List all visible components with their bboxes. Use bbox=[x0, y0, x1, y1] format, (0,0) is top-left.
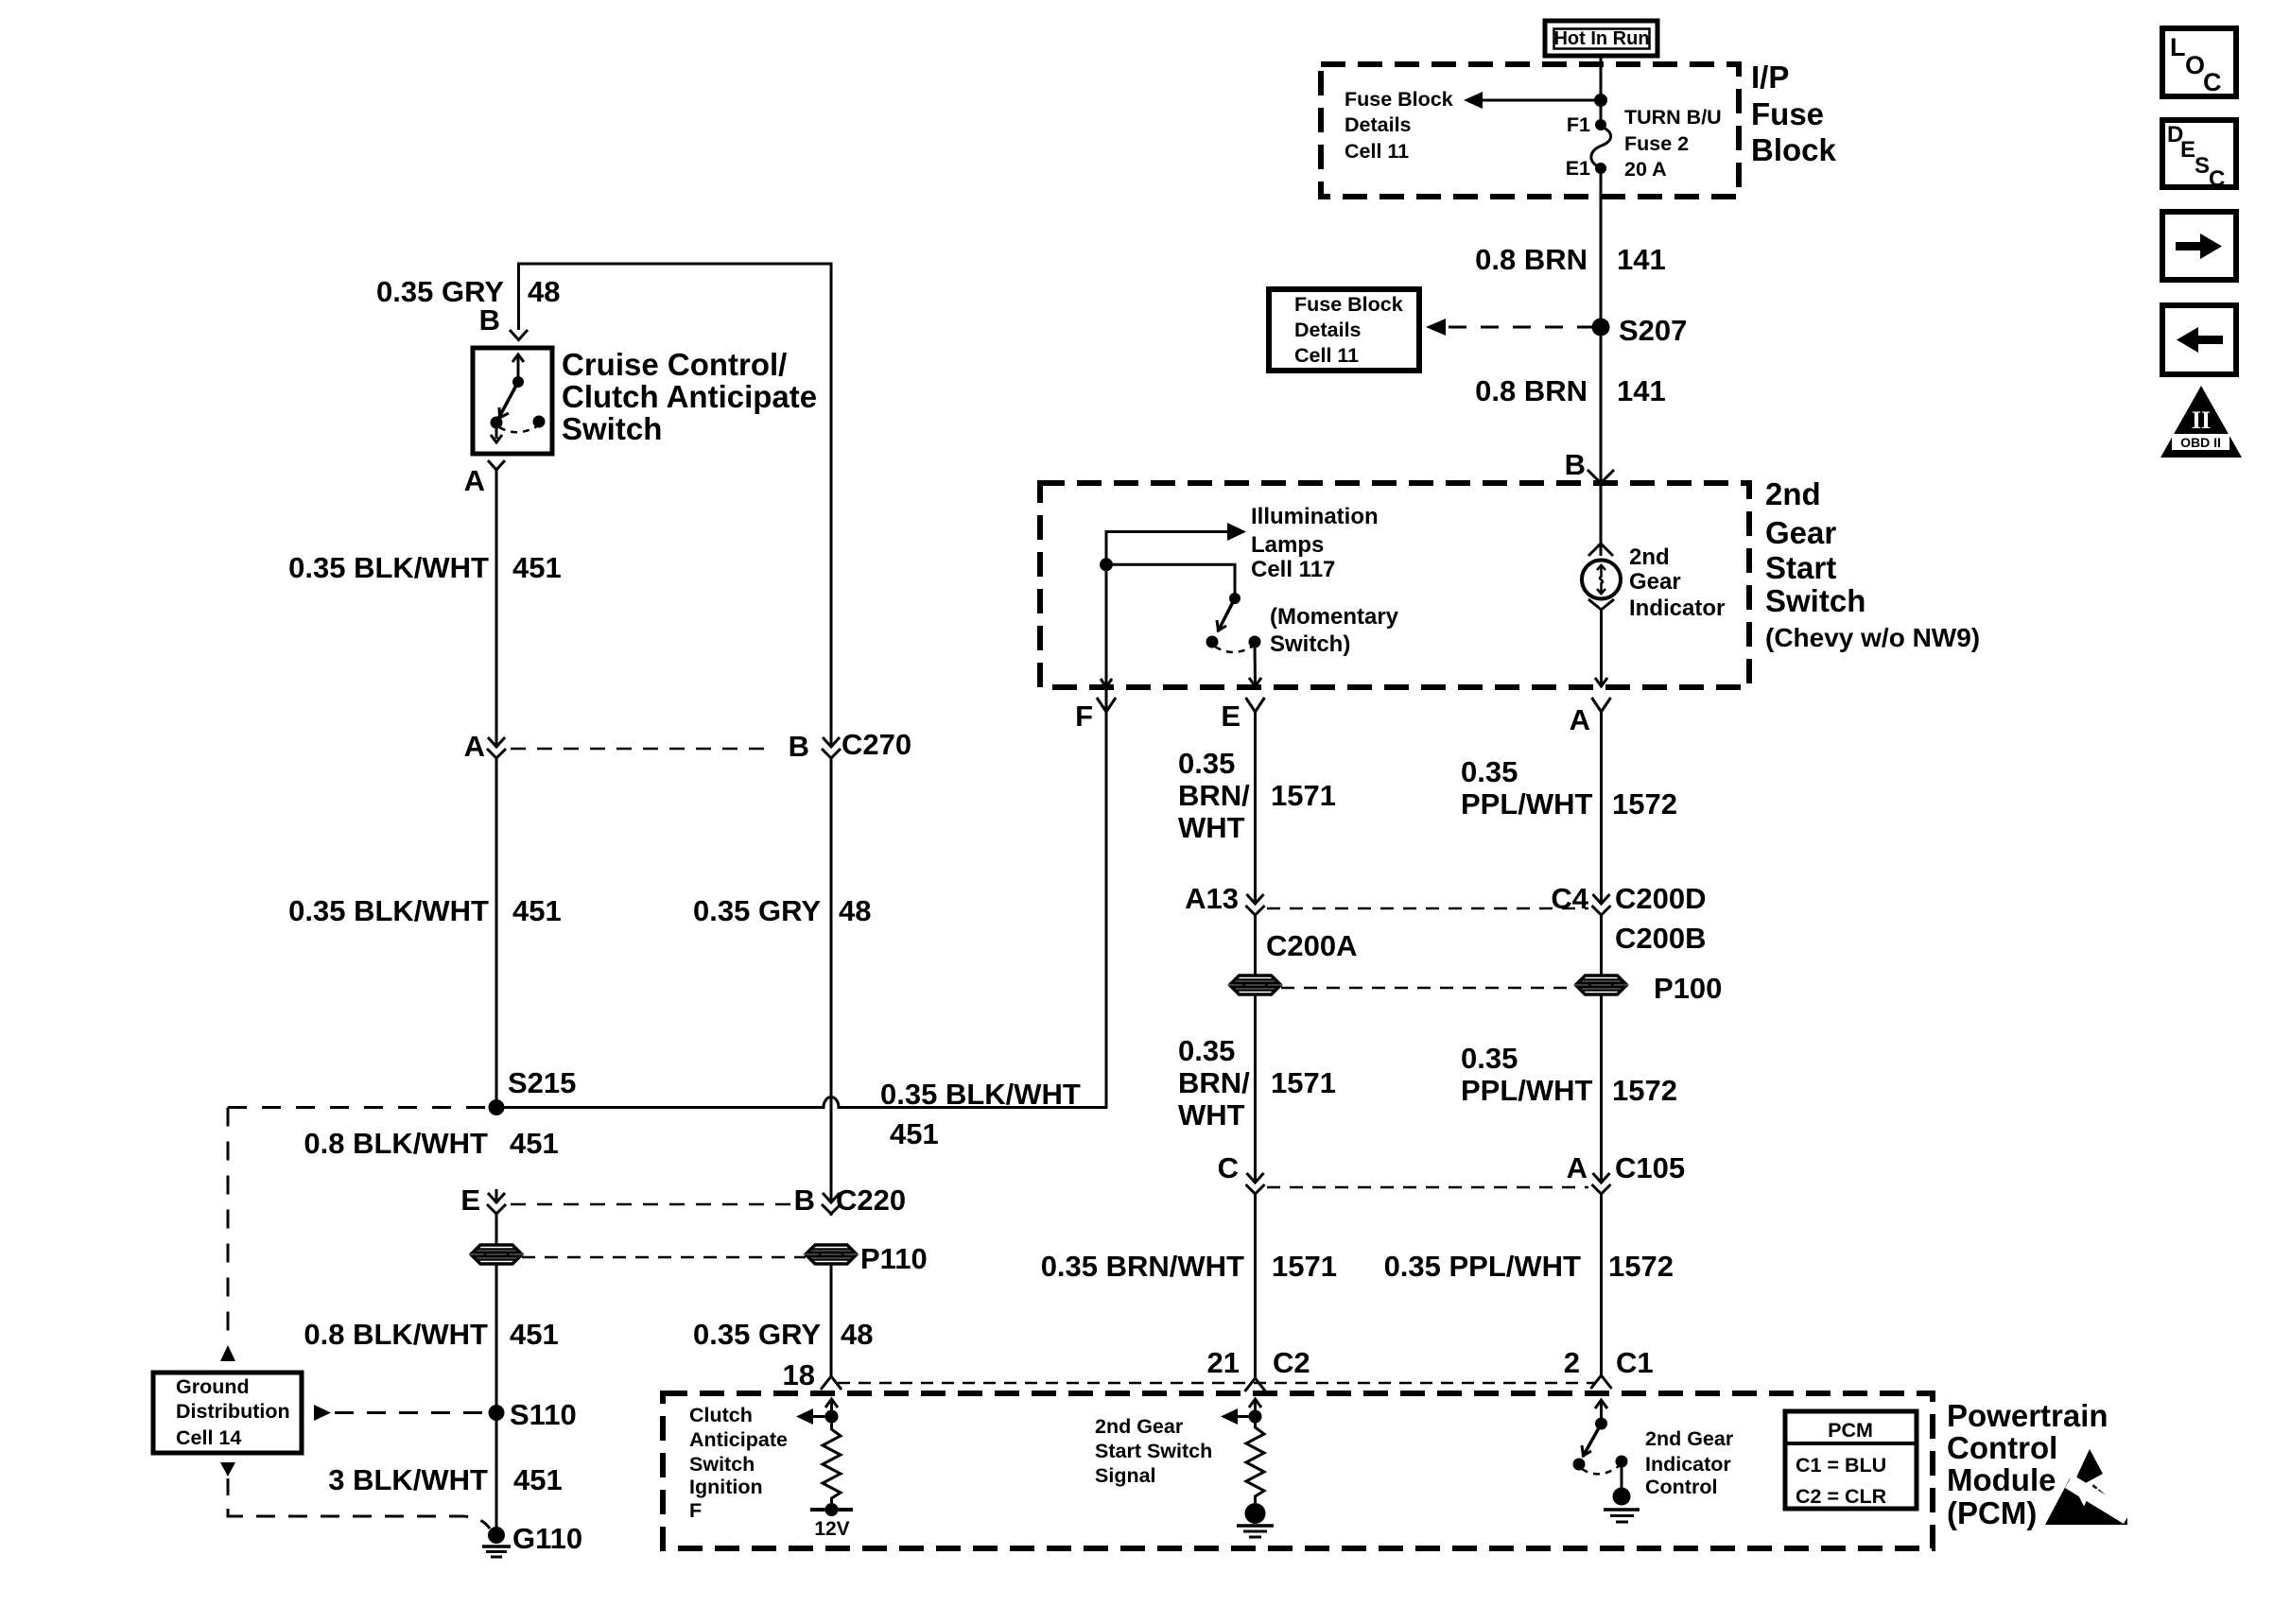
svg-text:I/P: I/P bbox=[1751, 60, 1789, 95]
svg-text:141: 141 bbox=[1617, 243, 1666, 276]
label Powertrain Control Module (PCM) bbox=[1947, 1398, 2108, 1530]
svg-text:0.35: 0.35 bbox=[1178, 747, 1235, 780]
svg-text:Start Switch: Start Switch bbox=[1095, 1440, 1212, 1462]
svg-text:F1: F1 bbox=[1567, 113, 1590, 136]
connector C220 pin B bbox=[794, 1183, 907, 1217]
svg-text:0.8 BRN: 0.8 BRN bbox=[1475, 374, 1588, 407]
label 2nd Gear Start Switch Signal bbox=[1095, 1415, 1212, 1487]
svg-text:S215: S215 bbox=[508, 1066, 576, 1099]
svg-text:(Chevy w/o NW9): (Chevy w/o NW9) bbox=[1765, 623, 1980, 652]
wire 0.35 BRN/WHT 1571 pin E to C200 bbox=[1178, 712, 1336, 904]
label 2nd Gear Start Switch (Chevy w/o NW9) bbox=[1765, 476, 1980, 652]
svg-text:Cell 14: Cell 14 bbox=[176, 1426, 241, 1449]
PCM connector thin dashed pin line bbox=[838, 1382, 1596, 1385]
svg-text:1571: 1571 bbox=[1271, 1066, 1336, 1099]
wire 0.8 BLK/WHT 451 S215 to C220 bbox=[304, 1127, 558, 1160]
svg-text:Distribution: Distribution bbox=[176, 1400, 290, 1423]
svg-text:OBD II: OBD II bbox=[2180, 435, 2221, 450]
cruise switch internal contacts bbox=[491, 354, 546, 442]
svg-text:Cell 11: Cell 11 bbox=[1294, 344, 1359, 367]
svg-text:Cell 117: Cell 117 bbox=[1251, 557, 1335, 582]
svg-text:B: B bbox=[794, 1183, 815, 1217]
svg-text:0.35: 0.35 bbox=[1461, 755, 1518, 788]
svg-text:0.35 BLK/WHT: 0.35 BLK/WHT bbox=[288, 894, 489, 927]
2nd gear start switch signal pull-down resistor to ground bbox=[1221, 1399, 1274, 1537]
svg-text:Ignition: Ignition bbox=[689, 1476, 763, 1498]
2nd gear indicator control switch inside PCM bbox=[1573, 1400, 1640, 1522]
wire S215 splice to F branch with hop over GRY wire bbox=[496, 712, 1106, 1150]
svg-text:E: E bbox=[2180, 137, 2195, 163]
wire C200 to P100 left bbox=[1254, 915, 1257, 975]
svg-text:A: A bbox=[464, 464, 485, 497]
dashed reference wire ground distribution to G110 bbox=[220, 1462, 490, 1529]
power feed label Hot In Run bbox=[1545, 21, 1657, 56]
svg-text:0.35 PPL/WHT: 0.35 PPL/WHT bbox=[1384, 1250, 1581, 1283]
svg-text:0.8 BLK/WHT: 0.8 BLK/WHT bbox=[304, 1318, 488, 1351]
wire 0.35 PPL/WHT 1572 pin A to C200 bbox=[1461, 712, 1677, 904]
label 2nd Gear Indicator Control bbox=[1645, 1427, 1734, 1498]
grommet P110 dashed mating line bbox=[522, 1256, 806, 1259]
icon OBD II triangle bbox=[2160, 386, 2242, 458]
svg-text:2nd Gear: 2nd Gear bbox=[1645, 1427, 1734, 1450]
svg-text:Switch: Switch bbox=[1765, 583, 1865, 618]
svg-text:451: 451 bbox=[510, 1127, 559, 1160]
svg-text:48: 48 bbox=[528, 275, 560, 308]
svg-text:1572: 1572 bbox=[1608, 1250, 1674, 1283]
svg-text:C: C bbox=[1218, 1151, 1239, 1184]
svg-text:B: B bbox=[479, 303, 500, 337]
pin 2 C1 of PCM bbox=[1564, 1346, 1654, 1389]
svg-text:451: 451 bbox=[890, 1117, 939, 1150]
svg-text:Details: Details bbox=[1294, 319, 1362, 341]
svg-text:A: A bbox=[1570, 703, 1590, 736]
svg-text:1571: 1571 bbox=[1271, 779, 1336, 812]
svg-text:P100: P100 bbox=[1654, 972, 1722, 1005]
fuse TURN B/U Fuse 2 20 A bbox=[1591, 106, 1722, 181]
dashed reference arrow to S110 bbox=[314, 1405, 484, 1421]
label Cruise Control/Clutch Anticipate Switch bbox=[562, 347, 817, 446]
svg-text:0.35 GRY: 0.35 GRY bbox=[693, 1318, 821, 1351]
svg-text:C1: C1 bbox=[1616, 1346, 1654, 1379]
connector C200A pin A13 bbox=[1185, 882, 1357, 962]
svg-text:C: C bbox=[2209, 166, 2225, 192]
svg-text:C105: C105 bbox=[1615, 1151, 1685, 1184]
fuse E1 terminal bbox=[1566, 157, 1606, 180]
svg-text:Fuse Block: Fuse Block bbox=[1345, 88, 1453, 111]
wire 0.35 BLK/WHT 451 switch A to C270 bbox=[288, 470, 562, 747]
wire junction to momentary switch bbox=[1106, 564, 1235, 598]
svg-text:C2 = CLR: C2 = CLR bbox=[1796, 1485, 1887, 1508]
svg-text:2nd Gear: 2nd Gear bbox=[1095, 1415, 1184, 1438]
svg-text:1571: 1571 bbox=[1272, 1250, 1337, 1283]
svg-text:Details: Details bbox=[1345, 113, 1412, 136]
svg-text:C200B: C200B bbox=[1615, 922, 1707, 955]
svg-text:E1: E1 bbox=[1566, 157, 1590, 180]
node fuse feed junction bbox=[1594, 94, 1607, 107]
connector C270 pin B bbox=[789, 728, 912, 763]
svg-text:C200D: C200D bbox=[1615, 882, 1707, 915]
svg-text:S110: S110 bbox=[510, 1398, 577, 1431]
svg-text:C4: C4 bbox=[1551, 882, 1588, 915]
PCM dashed box bbox=[663, 1393, 1933, 1548]
svg-text:12V: 12V bbox=[814, 1518, 849, 1540]
svg-text:PPL/WHT: PPL/WHT bbox=[1461, 787, 1593, 821]
svg-text:2: 2 bbox=[1564, 1346, 1580, 1379]
dashed ground reference from S215 to ground distribution bbox=[228, 1106, 488, 1109]
wire 0.35 GRY 48 P110 to PCM pin 18 bbox=[693, 1265, 873, 1376]
svg-text:Signal: Signal bbox=[1095, 1464, 1156, 1487]
pin E of 2nd gear switch bbox=[1221, 698, 1264, 733]
icon LOC box bbox=[2162, 28, 2236, 96]
svg-text:C: C bbox=[2203, 68, 2222, 96]
svg-text:II: II bbox=[2192, 406, 2211, 434]
svg-text:PPL/WHT: PPL/WHT bbox=[1461, 1074, 1593, 1107]
label Fuse Block Details Cell 11 (inside fuse box) bbox=[1345, 88, 1453, 163]
svg-text:S: S bbox=[2195, 153, 2210, 179]
svg-text:A13: A13 bbox=[1185, 882, 1239, 915]
svg-text:2nd: 2nd bbox=[1629, 544, 1670, 570]
svg-text:Cruise Control/: Cruise Control/ bbox=[562, 347, 787, 382]
grommet P100 right bbox=[1578, 972, 1723, 1005]
svg-text:Gear: Gear bbox=[1629, 569, 1681, 595]
wire 0.35 GRY 48 from C270 branch to cruise switch pin B bbox=[376, 264, 831, 747]
icon DESC box bbox=[2162, 120, 2236, 192]
dashed ground reference wire down to ground distribution box bbox=[220, 1108, 235, 1362]
connector C105 pin C bbox=[1218, 1151, 1265, 1196]
svg-text:Fuse 2: Fuse 2 bbox=[1624, 132, 1689, 155]
svg-text:Control: Control bbox=[1947, 1430, 2057, 1465]
svg-text:A: A bbox=[464, 730, 485, 763]
svg-text:BRN/: BRN/ bbox=[1178, 779, 1250, 812]
svg-text:451: 451 bbox=[512, 894, 562, 927]
svg-text:C1 = BLU: C1 = BLU bbox=[1796, 1454, 1886, 1477]
svg-text:B: B bbox=[789, 730, 809, 763]
svg-text:Control: Control bbox=[1645, 1476, 1717, 1498]
svg-text:48: 48 bbox=[841, 1318, 873, 1351]
label Clutch Anticipate Switch Ignition F bbox=[689, 1404, 788, 1522]
wire 0.35 PPL/WHT 1572 C105 to PCM pin 2 bbox=[1384, 1194, 1674, 1375]
svg-text:Ground: Ground bbox=[176, 1375, 250, 1398]
icon right-arrow box bbox=[2162, 212, 2236, 280]
svg-text:Switch: Switch bbox=[689, 1453, 755, 1476]
svg-text:Start: Start bbox=[1765, 550, 1836, 585]
svg-text:Fuse Block: Fuse Block bbox=[1294, 293, 1403, 316]
svg-text:48: 48 bbox=[839, 894, 871, 927]
svg-text:Indicator: Indicator bbox=[1645, 1453, 1731, 1476]
svg-text:WHT: WHT bbox=[1178, 1098, 1245, 1132]
svg-text:Lamps: Lamps bbox=[1251, 532, 1324, 558]
pin A of cruise switch bbox=[464, 460, 505, 497]
svg-text:C200A: C200A bbox=[1266, 929, 1358, 962]
svg-text:C270: C270 bbox=[842, 728, 911, 761]
clutch anticipate pull-up resistor to 12V bbox=[796, 1399, 853, 1540]
svg-text:(Momentary: (Momentary bbox=[1270, 604, 1399, 630]
svg-text:0.35 GRY: 0.35 GRY bbox=[693, 894, 821, 927]
svg-text:BRN/: BRN/ bbox=[1178, 1066, 1250, 1099]
svg-text:TURN B/U: TURN B/U bbox=[1624, 106, 1722, 129]
svg-text:B: B bbox=[1565, 448, 1586, 481]
svg-text:Cell 11: Cell 11 bbox=[1345, 140, 1409, 163]
svg-text:Gear: Gear bbox=[1765, 515, 1836, 550]
svg-text:18: 18 bbox=[783, 1358, 815, 1391]
wire 0.35 BLK/WHT 451 C270 to S215 bbox=[288, 760, 562, 1108]
svg-text:21: 21 bbox=[1207, 1346, 1240, 1379]
label 2nd Gear Indicator bbox=[1629, 544, 1725, 621]
svg-text:C220: C220 bbox=[836, 1183, 906, 1217]
svg-text:Block: Block bbox=[1751, 132, 1837, 167]
svg-text:1572: 1572 bbox=[1612, 787, 1677, 821]
wire 3 BLK/WHT 451 S110 to G110 bbox=[328, 1463, 563, 1496]
svg-text:Hot In Run: Hot In Run bbox=[1553, 28, 1649, 49]
svg-text:Switch: Switch bbox=[562, 411, 662, 446]
node S215 bbox=[489, 1066, 577, 1115]
svg-text:Anticipate: Anticipate bbox=[689, 1428, 788, 1451]
wire 0.8 BRN 141 fuse to S207 bbox=[1475, 168, 1666, 327]
grommet P110 left bbox=[473, 1245, 520, 1264]
svg-text:Indicator: Indicator bbox=[1629, 596, 1725, 621]
wire 0.35 PPL/WHT 1572 P100 to C105 bbox=[1461, 995, 1677, 1183]
label (Momentary Switch) bbox=[1270, 604, 1399, 657]
svg-text:0.8 BLK/WHT: 0.8 BLK/WHT bbox=[304, 1127, 488, 1160]
svg-text:G110: G110 bbox=[512, 1522, 582, 1555]
svg-text:141: 141 bbox=[1617, 374, 1666, 407]
connector C270 pin A bbox=[464, 730, 506, 763]
grommet P100 dashed mating line bbox=[1281, 987, 1574, 990]
svg-text:Illumination: Illumination bbox=[1251, 504, 1379, 529]
svg-text:2nd: 2nd bbox=[1765, 476, 1821, 511]
wire 0.35 GRY 48 C270 to C220 bbox=[693, 760, 871, 1202]
svg-text:451: 451 bbox=[512, 551, 562, 584]
grommet P100 left bbox=[1232, 976, 1279, 994]
svg-text:L: L bbox=[2170, 33, 2186, 61]
2nd gear start switch dashed box bbox=[1040, 483, 1749, 687]
svg-text:0.35 BLK/WHT: 0.35 BLK/WHT bbox=[880, 1078, 1081, 1111]
2nd gear indicator lamp bbox=[1582, 483, 1621, 686]
wire arrow to Fuse Block Details bbox=[1464, 92, 1601, 109]
svg-text:0.8 BRN: 0.8 BRN bbox=[1475, 243, 1588, 276]
wire 0.35 BRN/WHT 1571 C105 to PCM pin 21 bbox=[1041, 1194, 1337, 1378]
wire 0.8 BLK/WHT 451 P110 to S110 bbox=[304, 1265, 558, 1535]
svg-text:P110: P110 bbox=[860, 1242, 928, 1275]
PCM connector legend box bbox=[1785, 1411, 1917, 1509]
connector C220 dashed mating line bbox=[511, 1203, 792, 1206]
svg-text:E: E bbox=[1221, 700, 1241, 733]
pin 18 of PCM bbox=[783, 1358, 842, 1391]
pin B of cruise switch bbox=[479, 303, 528, 340]
svg-text:Clutch Anticipate: Clutch Anticipate bbox=[562, 379, 817, 414]
connector C270 dashed mating line bbox=[511, 748, 773, 751]
node illumination branch junction bbox=[1100, 558, 1113, 571]
label Illumination Lamps Cell 117 bbox=[1251, 504, 1379, 582]
dashed reference wire S207 to Fuse Block Details bbox=[1426, 319, 1592, 336]
wire C200 to P100 right bbox=[1600, 915, 1603, 975]
svg-text:WHT: WHT bbox=[1178, 811, 1245, 844]
svg-text:0.35 BLK/WHT: 0.35 BLK/WHT bbox=[288, 551, 489, 584]
pin 21 C2 of PCM bbox=[1207, 1346, 1310, 1391]
svg-text:S207: S207 bbox=[1619, 314, 1687, 347]
node S110 bbox=[489, 1398, 577, 1431]
svg-text:F: F bbox=[689, 1499, 702, 1522]
connector C220 pin E bbox=[460, 1183, 506, 1217]
I/P fuse block dashed box bbox=[1321, 64, 1739, 197]
wire momentary switch to pin E bbox=[1249, 642, 1261, 686]
pin A of 2nd gear switch bbox=[1570, 698, 1611, 736]
ground G110 bbox=[482, 1522, 582, 1557]
ESD sensitive device symbol bbox=[2045, 1449, 2131, 1525]
wire from Hot In Run into fuse block bbox=[1600, 56, 1603, 125]
connector C105 pin A bbox=[1567, 1151, 1686, 1196]
svg-text:1572: 1572 bbox=[1612, 1074, 1677, 1107]
svg-text:A: A bbox=[1567, 1151, 1588, 1184]
cruise control / clutch anticipate switch box bbox=[473, 348, 552, 454]
svg-text:0.35 BRN/WHT: 0.35 BRN/WHT bbox=[1041, 1250, 1244, 1283]
fuse F1 terminal bbox=[1567, 113, 1606, 136]
pin B of 2nd gear start switch bbox=[1565, 448, 1614, 483]
wire illumination feed inside box bbox=[1106, 523, 1246, 712]
wire C220 to P110 left bbox=[495, 1214, 498, 1244]
svg-text:3 BLK/WHT: 3 BLK/WHT bbox=[328, 1463, 488, 1496]
box Fuse Block Details Cell 11 bbox=[1269, 289, 1419, 371]
svg-text:20 A: 20 A bbox=[1624, 158, 1667, 181]
wire 0.8 BRN 141 S207 to 2nd gear switch bbox=[1475, 327, 1666, 483]
connector C200 dashed mating line bbox=[1267, 907, 1588, 910]
connector C105 dashed mating line bbox=[1267, 1186, 1588, 1189]
svg-text:E: E bbox=[460, 1183, 480, 1217]
pin F of 2nd gear switch bbox=[1075, 698, 1116, 733]
I/P Fuse Block title bbox=[1751, 60, 1837, 167]
svg-text:O: O bbox=[2185, 51, 2205, 79]
svg-text:0.35: 0.35 bbox=[1178, 1034, 1235, 1067]
svg-text:Module: Module bbox=[1947, 1462, 2056, 1497]
svg-text:Clutch: Clutch bbox=[689, 1404, 753, 1426]
wire illumination branch to pin F arrowhead bbox=[1101, 679, 1112, 687]
svg-text:0.35: 0.35 bbox=[1461, 1042, 1518, 1075]
momentary switch contacts bbox=[1206, 593, 1261, 652]
svg-text:451: 451 bbox=[510, 1318, 559, 1351]
connector C200D/C200B pin C4 bbox=[1551, 882, 1706, 955]
svg-text:F: F bbox=[1075, 700, 1093, 733]
box Ground Distribution Cell 14 bbox=[153, 1373, 302, 1453]
svg-text:C2: C2 bbox=[1273, 1346, 1310, 1379]
svg-text:Fuse: Fuse bbox=[1751, 96, 1824, 131]
wire 0.35 BRN/WHT 1571 P100 to C105 bbox=[1178, 995, 1336, 1183]
grommet P110 right bbox=[807, 1242, 928, 1275]
icon left-arrow box bbox=[2162, 305, 2236, 374]
svg-text:(PCM): (PCM) bbox=[1947, 1495, 2037, 1530]
node S207 bbox=[1592, 314, 1688, 347]
svg-text:451: 451 bbox=[513, 1463, 563, 1496]
svg-text:PCM: PCM bbox=[1828, 1419, 1873, 1442]
svg-text:Switch): Switch) bbox=[1270, 631, 1350, 657]
svg-text:Powertrain: Powertrain bbox=[1947, 1398, 2108, 1433]
